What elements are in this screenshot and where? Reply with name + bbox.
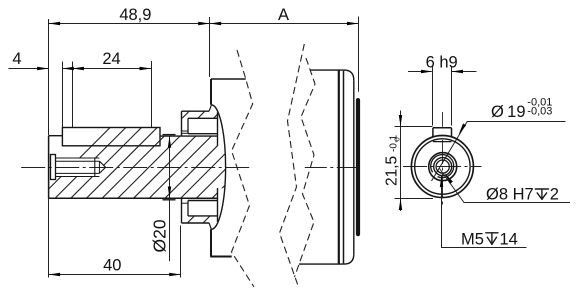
svg-text:6 h9: 6 h9 <box>426 54 458 72</box>
svg-text:-0,03: -0,03 <box>527 106 552 118</box>
svg-text:14: 14 <box>500 231 518 249</box>
svg-text:-0,1: -0,1 <box>389 134 400 152</box>
svg-text:Ø20: Ø20 <box>150 219 170 252</box>
svg-text:Ø 19: Ø 19 <box>491 103 526 121</box>
svg-text:A: A <box>278 6 289 24</box>
svg-text:2: 2 <box>550 186 559 204</box>
svg-text:24: 24 <box>102 50 120 68</box>
svg-text:Ø8 H7: Ø8 H7 <box>486 186 534 204</box>
svg-text:4: 4 <box>12 50 21 68</box>
svg-text:M5: M5 <box>461 231 484 249</box>
svg-text:0: 0 <box>394 137 401 141</box>
svg-text:48,9: 48,9 <box>119 6 151 24</box>
svg-text:40: 40 <box>103 257 121 275</box>
svg-text:21,5: 21,5 <box>383 156 400 186</box>
